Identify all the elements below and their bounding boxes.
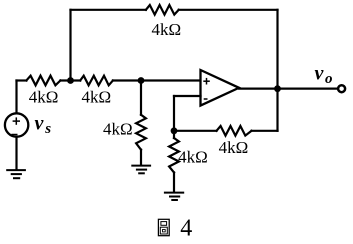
resistor R5 4k lower feedback [217, 126, 252, 136]
source plus sign [13, 117, 20, 124]
wire source vertical bottom [15, 137, 17, 169]
wire R1 to R2 through node A [60, 79, 80, 81]
resistor R3 4k top feedback [146, 5, 179, 15]
svg-text:4kΩ: 4kΩ [81, 87, 111, 106]
wire top feedback right segment [179, 9, 278, 11]
ground node B [132, 166, 150, 174]
node A junction dot [67, 77, 74, 84]
wire node C vertical short [173, 131, 175, 138]
svg-text:4kΩ: 4kΩ [178, 148, 208, 167]
terminal vo open circle [338, 85, 345, 92]
svg-text:4: 4 [180, 215, 192, 241]
resistor R1 4k input left [26, 76, 60, 86]
op-amp plus sign [203, 78, 210, 85]
wire R2 to op-amp + input through node B [113, 79, 201, 81]
resistor R4 4k node B to ground [136, 115, 146, 150]
wire node B vertical down [140, 81, 142, 115]
resistor R2 4k input right [80, 76, 113, 86]
wire source top corner to R1 [17, 79, 27, 81]
ground node C [165, 193, 183, 200]
wire op-amp output to terminal [239, 87, 338, 89]
ground source [7, 170, 25, 178]
wire right vertical upper (feedback down to output node) [276, 10, 278, 89]
svg-text:4kΩ: 4kΩ [219, 138, 249, 157]
wire R4 to ground [140, 150, 142, 165]
source minus sign [11, 134, 17, 136]
svg-text:4kΩ: 4kΩ [103, 119, 133, 138]
wire node C to R5 [174, 130, 217, 132]
node output junction dot [274, 85, 281, 92]
source Vs circle [5, 113, 28, 136]
wire top feedback left segment [71, 9, 146, 11]
node B junction dot [138, 77, 145, 84]
resistor R6 4k node C to ground [169, 138, 179, 173]
wire R6 to ground [173, 173, 175, 192]
wire left vertical (top feedback to node A) [69, 10, 71, 81]
wire R5 to right vertical [252, 130, 278, 132]
wire source vertical top [15, 81, 17, 114]
svg-text:4kΩ: 4kΩ [151, 20, 181, 39]
svg-text:4kΩ: 4kΩ [29, 87, 59, 106]
wire op-amp minus input vertical down to node C [173, 96, 175, 131]
op-amp minus sign [204, 98, 208, 100]
op-amp U1 triangle [201, 70, 240, 106]
caption figure glyph (CJK tu) [158, 219, 169, 235]
wire right vertical lower (output node down to lower feedback) [276, 89, 278, 131]
wire op-amp minus input horizontal [174, 95, 201, 97]
node C junction dot [171, 127, 178, 134]
